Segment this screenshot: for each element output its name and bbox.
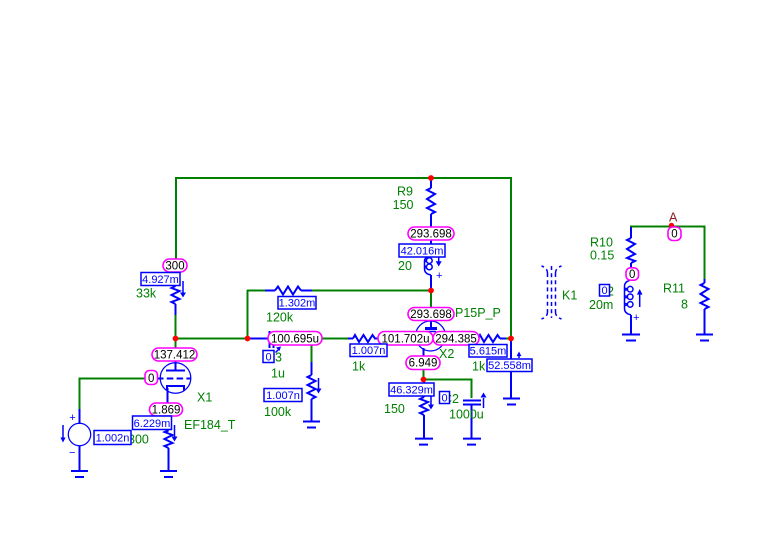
capacitor C3 plates	[269, 331, 271, 348]
resistor R5 1k zigzag	[353, 335, 375, 342]
wire feedback to L1 junction	[312, 290, 431, 292]
battery V3 current arrow	[518, 354, 520, 358]
svg-text:1.007n: 1.007n	[352, 345, 386, 357]
svg-text:0: 0	[671, 229, 677, 241]
svg-text:5.615m: 5.615m	[470, 346, 507, 358]
source V1 bottom lead	[79, 446, 81, 472]
value box 42.016m	[399, 244, 445, 257]
resistor R9 leads	[430, 178, 432, 188]
svg-text:300: 300	[165, 261, 184, 273]
wire left vertical from top rail to R2 33k	[175, 177, 177, 262]
junction node A	[669, 223, 674, 228]
ground under V3	[503, 398, 520, 400]
resistor R7 right lead	[500, 338, 506, 340]
inductor L1 20 coils	[425, 257, 433, 276]
svg-text:0: 0	[601, 285, 607, 297]
svg-text:0: 0	[629, 269, 635, 281]
node label 101.702u	[378, 332, 433, 346]
capacitor C3 left lead	[248, 338, 269, 340]
svg-text:A: A	[669, 211, 678, 225]
ground under R1	[160, 470, 177, 472]
wire secondary top rail with node A	[630, 227, 705, 280]
svg-text:293.698: 293.698	[410, 229, 452, 241]
inductor L2 bottom lead	[630, 315, 632, 334]
svg-text:120k: 120k	[266, 311, 294, 325]
svg-text:1.002n: 1.002n	[96, 433, 130, 445]
value box 52.558m	[487, 359, 532, 372]
node label 100.695u	[268, 332, 322, 346]
junction plate node left	[173, 336, 179, 342]
svg-text:+: +	[633, 312, 639, 324]
svg-text:0: 0	[148, 373, 154, 385]
tube X1 cathode lead	[167, 388, 169, 432]
source V1 current arrow	[62, 425, 64, 438]
svg-text:+: +	[69, 412, 75, 424]
wire X1 grid input	[80, 379, 147, 411]
svg-text:EF184_T: EF184_T	[184, 418, 236, 432]
value box 1.002n	[94, 431, 131, 445]
svg-text:137.412: 137.412	[154, 350, 196, 362]
ground under R11	[696, 334, 713, 336]
svg-text:33k: 33k	[136, 287, 157, 301]
resistor R6 150 zigzag	[420, 397, 428, 415]
resistor R1 bottom lead	[168, 448, 170, 471]
svg-text:150: 150	[393, 198, 414, 212]
svg-text:+: +	[436, 270, 442, 282]
node label 6.949	[406, 356, 440, 370]
node label 300	[163, 259, 187, 272]
svg-text:R11: R11	[663, 282, 685, 296]
svg-text:0: 0	[441, 393, 447, 405]
tube X2 cathode lead	[423, 348, 425, 362]
capacitor C2 1000u plates	[463, 400, 481, 402]
tube X2 plate lead	[430, 309, 432, 327]
svg-text:−: −	[69, 447, 75, 459]
junction L1 bottom	[428, 288, 434, 294]
value box 1.007n 100k	[264, 389, 302, 402]
svg-text:6.949: 6.949	[409, 358, 438, 370]
svg-text:8: 8	[681, 298, 688, 312]
resistor R6 current arrow	[430, 393, 432, 405]
value box 1.007n grid	[350, 344, 387, 357]
svg-text:1.302m: 1.302m	[279, 298, 316, 310]
svg-text:1k: 1k	[352, 360, 366, 374]
svg-text:100.695u: 100.695u	[271, 334, 319, 346]
tube X1 grid dashes	[157, 378, 191, 380]
value box 0 C3	[263, 351, 274, 363]
svg-text:0.15: 0.15	[590, 249, 614, 263]
ground under L2	[622, 334, 640, 336]
wire screen 1k to B+ rail	[505, 338, 511, 340]
svg-text:52.558m: 52.558m	[488, 360, 531, 372]
ground under V1	[71, 470, 88, 472]
junction node 300 top	[428, 175, 434, 181]
node label 293.698 plate	[408, 308, 454, 321]
inductor L2 coils	[625, 281, 634, 315]
node label 137.412	[152, 348, 197, 361]
resistor R4 100k zigzag	[308, 375, 316, 399]
transformer K1 core dashes	[547, 273, 549, 312]
resistor R5 1k grid leads	[348, 338, 353, 340]
wire plate node row	[175, 338, 248, 340]
value box 0 L2	[600, 285, 610, 297]
resistor R11 top lead	[704, 279, 706, 283]
value box 1.302m	[278, 297, 316, 310]
tube X1 cathode bracket	[167, 386, 184, 391]
resistor R9 150 zigzag	[427, 188, 435, 214]
resistor R3 120k right lead	[301, 290, 313, 292]
wire 100k to grid node	[311, 345, 313, 362]
svg-text:X1: X1	[197, 391, 212, 405]
wire right B+ rail	[510, 178, 512, 338]
wire 120k feedback branch vertical	[247, 290, 249, 338]
svg-text:294.385: 294.385	[435, 334, 477, 346]
tube X1 plate bar	[166, 370, 185, 372]
svg-text:42.016m: 42.016m	[401, 246, 444, 258]
resistor R1 300 cathode zigzag	[165, 430, 173, 448]
resistor R4 100k top lead	[311, 361, 313, 375]
resistor R3 120k zigzag	[275, 287, 301, 295]
svg-text:1.007n: 1.007n	[266, 390, 300, 402]
svg-text:K1: K1	[562, 289, 577, 303]
resistor R2 lead	[175, 304, 177, 315]
ground under C2	[463, 438, 481, 440]
ground under R6	[415, 438, 433, 440]
resistor R3 120k left lead	[265, 290, 275, 292]
capacitor C2 current arrow	[483, 398, 485, 408]
capacitor C3 current arrow	[276, 350, 279, 353]
node label 0 grid X1	[145, 371, 158, 385]
wire X1 plate stub	[175, 338, 177, 350]
resistor R10 top lead	[630, 227, 632, 238]
svg-text:293.698: 293.698	[410, 309, 452, 321]
battery V3 body line	[510, 339, 512, 398]
junction screen B+	[508, 336, 514, 342]
wire 120k feedback horizontal	[247, 290, 266, 292]
tube X2 screen bar	[426, 331, 436, 333]
svg-text:1k: 1k	[472, 360, 486, 374]
wire top rail node 300	[175, 177, 512, 179]
resistor R4 bottom lead	[311, 399, 313, 421]
resistor R11 zigzag	[701, 283, 709, 309]
value box 0 C2	[440, 392, 450, 404]
svg-text:0: 0	[265, 352, 271, 364]
wire L1 bottom to X2 plate	[430, 290, 432, 309]
tube X2 envelope circle	[416, 321, 446, 351]
ground under R4	[303, 421, 320, 423]
inductor L1 current arrow	[438, 256, 440, 263]
wire X2 cathode to junction	[423, 361, 425, 379]
svg-text:101.702u: 101.702u	[382, 334, 430, 346]
node label 294.385	[433, 332, 479, 346]
transformer K1 flares	[542, 266, 548, 273]
resistor R11 bottom lead	[704, 309, 706, 334]
resistor R6 bottom lead	[423, 415, 425, 438]
source V1 circle	[68, 423, 90, 445]
svg-text:R10: R10	[590, 236, 613, 250]
svg-text:6.229m: 6.229m	[134, 418, 171, 430]
tube X1 plate lead	[175, 350, 177, 370]
svg-text:4.927m: 4.927m	[142, 274, 179, 286]
node label 293.698 top	[408, 227, 454, 240]
wire below 33k to plate node	[175, 314, 177, 338]
svg-text:P15P_P: P15P_P	[455, 306, 501, 320]
resistor R10 bottom lead	[630, 263, 632, 269]
node label 0 under R10	[626, 268, 639, 280]
svg-text:R9: R9	[397, 185, 413, 199]
svg-text:150: 150	[384, 402, 405, 416]
wire cathode junction to C2	[423, 380, 472, 399]
inductor L1 bottom lead	[430, 275, 432, 290]
svg-text:46.329m: 46.329m	[390, 385, 433, 397]
svg-text:1u: 1u	[271, 367, 285, 381]
value box 4.927m	[141, 273, 180, 286]
resistor R2 33k zigzag	[172, 286, 180, 304]
svg-text:20m: 20m	[589, 298, 613, 312]
resistor R1 current arrow	[174, 425, 176, 437]
node label 1.869	[150, 403, 183, 416]
svg-text:100k: 100k	[264, 405, 292, 419]
svg-text:X2: X2	[439, 347, 454, 361]
capacitor C3 right lead	[274, 338, 322, 340]
value box 6.229m	[133, 416, 172, 430]
inductor L2 current arrow	[639, 294, 641, 307]
svg-text:1.869: 1.869	[152, 405, 181, 417]
resistor R2 current arrow	[182, 281, 184, 293]
value box 5.615m	[469, 345, 507, 358]
resistor R10 zigzag	[627, 238, 635, 263]
svg-text:20: 20	[398, 259, 412, 273]
wire C3 to X2 grid segment	[322, 338, 349, 340]
resistor R4 current arrow	[318, 378, 320, 389]
junction X2 cathode	[421, 377, 427, 383]
tube X2 plate bar	[425, 327, 437, 330]
resistor R7 1k screen zigzag	[478, 335, 500, 342]
tube X1 envelope circle	[160, 363, 191, 394]
node label 0 at A	[668, 227, 681, 241]
value box 46.329m	[389, 383, 434, 396]
resistor R6 150 top lead	[423, 379, 425, 397]
svg-text:1000u: 1000u	[449, 408, 484, 422]
junction plate node right	[245, 336, 251, 342]
source V1 top lead	[79, 409, 81, 424]
capacitor C2 bottom lead	[471, 405, 473, 438]
